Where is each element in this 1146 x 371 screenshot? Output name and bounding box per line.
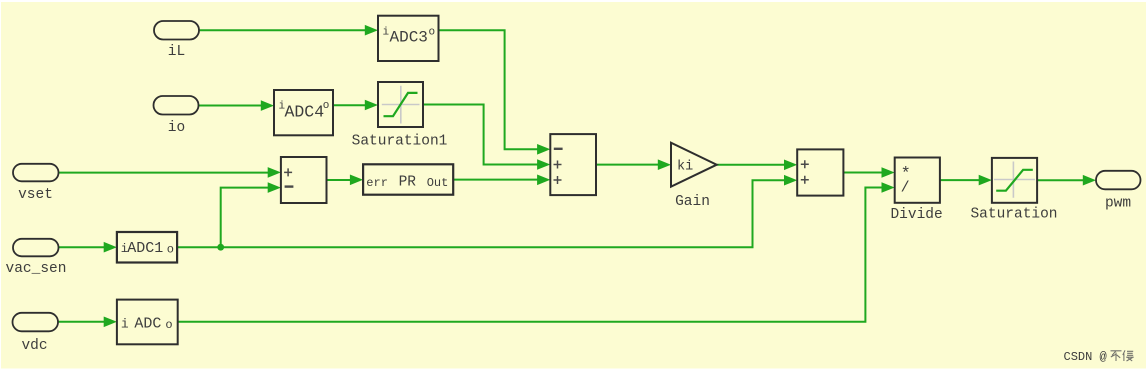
svg-text:vdc: vdc bbox=[21, 338, 47, 354]
arrowhead into ADC4 bbox=[261, 100, 274, 111]
arrowhead into ADC bbox=[104, 317, 117, 328]
sum block sum2 bbox=[550, 134, 596, 195]
subsystem ADC bbox=[117, 300, 178, 345]
svg-text:err: err bbox=[366, 176, 388, 190]
svg-text:vset: vset bbox=[18, 187, 53, 203]
subsystem ADC4 bbox=[274, 90, 333, 135]
arrowhead into Saturation1 bbox=[365, 100, 378, 111]
arrowhead into err PR Out bbox=[350, 175, 363, 186]
arrowhead into ADC3 bbox=[365, 25, 378, 36]
wire ADC1 to junction bbox=[177, 246, 221, 248]
svg-text:o: o bbox=[165, 318, 172, 332]
svg-text:Divide: Divide bbox=[890, 207, 942, 223]
svg-text:ADC4: ADC4 bbox=[285, 103, 325, 122]
svg-text:Out: Out bbox=[427, 176, 449, 190]
block Saturation1 bbox=[378, 82, 423, 127]
wire junction up to sum1 minus bbox=[221, 188, 269, 248]
svg-text:Saturation1: Saturation1 bbox=[352, 134, 448, 150]
svg-text:ADC: ADC bbox=[134, 316, 161, 333]
arrowhead into pwm bbox=[1083, 175, 1096, 186]
block err PR Out bbox=[363, 164, 453, 194]
svg-text:io: io bbox=[168, 120, 185, 136]
svg-text:o: o bbox=[429, 26, 436, 38]
svg-text:i: i bbox=[121, 317, 129, 332]
sum block sum3 bbox=[797, 149, 843, 195]
svg-text:Saturation: Saturation bbox=[970, 206, 1057, 222]
arrowhead into sum2 bottom bbox=[537, 175, 550, 186]
arrowhead into sum3 first plus bbox=[784, 160, 797, 171]
inport vset bbox=[13, 164, 59, 182]
arrowhead into sum1 plus bbox=[268, 167, 281, 178]
wire Saturation to pwm bbox=[1037, 179, 1084, 181]
svg-text:pwm: pwm bbox=[1105, 196, 1131, 212]
watermark glyph bu (不) bbox=[1111, 351, 1122, 361]
arrowhead into sum2 middle bbox=[537, 159, 550, 170]
svg-text:ADC3: ADC3 bbox=[390, 29, 428, 47]
svg-text:ki: ki bbox=[677, 160, 693, 175]
wire vset to sum1 plus bbox=[59, 172, 270, 174]
arrowhead into Saturation bbox=[979, 175, 992, 186]
block Saturation bbox=[992, 158, 1037, 203]
inport vac_sen bbox=[13, 239, 59, 256]
inport vdc bbox=[13, 313, 59, 332]
arrowhead into Divide star input bbox=[882, 167, 895, 178]
wire Saturation1 to sum2 middle bbox=[423, 105, 539, 165]
wire Gain to sum3 first plus bbox=[717, 164, 786, 166]
svg-text:o: o bbox=[323, 100, 330, 112]
wire sum2 to Gain bbox=[596, 164, 659, 166]
block Divide bbox=[895, 158, 940, 203]
wire iL to ADC3 bbox=[199, 29, 367, 31]
wire ADC3 to sum2 top bbox=[439, 30, 539, 149]
gain triangle ki bbox=[671, 143, 717, 187]
svg-text:ADC1: ADC1 bbox=[127, 240, 163, 257]
inport io bbox=[154, 96, 199, 115]
subsystem ADC3 bbox=[378, 16, 439, 61]
arrowhead into Divide slash input bbox=[882, 182, 895, 193]
wire junction right and up to sum3 second plus bbox=[221, 180, 786, 247]
wire err PR Out to sum2 bottom bbox=[453, 179, 538, 181]
arrowhead into ADC1 bbox=[104, 242, 117, 253]
watermark glyph qin (侵) bbox=[1123, 350, 1134, 361]
inport iL bbox=[154, 21, 199, 40]
svg-text:CSDN @: CSDN @ bbox=[1064, 350, 1107, 364]
arrowhead into Gain bbox=[658, 159, 671, 170]
svg-text:PR: PR bbox=[399, 175, 417, 191]
arrowhead into sum2 top bbox=[537, 144, 550, 155]
wire sum1 to err PR Out bbox=[327, 179, 352, 181]
svg-text:o: o bbox=[167, 242, 174, 256]
arrowhead into sum3 second plus bbox=[784, 175, 797, 186]
outport pwm bbox=[1096, 171, 1141, 190]
wire sum3 to Divide star input bbox=[843, 172, 883, 174]
wire io to ADC4 bbox=[199, 105, 263, 107]
wire vdc to ADC bbox=[58, 321, 105, 323]
subsystem ADC1 bbox=[117, 232, 177, 263]
svg-text:/: / bbox=[901, 179, 910, 196]
arrowhead into sum1 minus bbox=[268, 182, 281, 193]
svg-text:Gain: Gain bbox=[675, 194, 710, 210]
svg-text:iL: iL bbox=[168, 44, 185, 60]
wire ADC4 to Saturation1 bbox=[333, 104, 366, 106]
wire ADC to Divide slash input bbox=[178, 188, 883, 322]
wire Divide to Saturation bbox=[940, 179, 980, 181]
svg-text:vac_sen: vac_sen bbox=[6, 261, 67, 277]
junction dot bbox=[217, 244, 224, 251]
svg-text:i: i bbox=[383, 26, 390, 38]
sum block sum1 bbox=[281, 157, 327, 203]
wire vac_sen to ADC1 bbox=[59, 246, 106, 248]
